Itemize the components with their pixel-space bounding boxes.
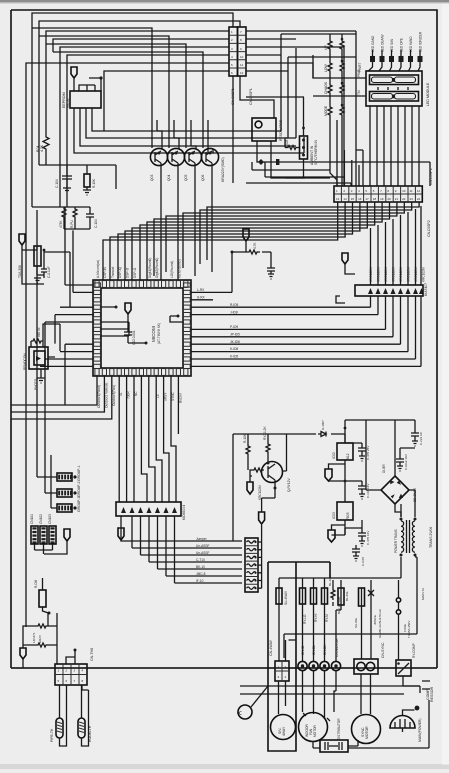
svg-text:POWER TRANS: POWER TRANS: [394, 529, 398, 553]
connector ring CN-ID: [298, 661, 307, 670]
header CN ambient 3pin: [300, 136, 319, 165]
svg-text:RY2 1.2K: RY2 1.2K: [263, 426, 267, 440]
svg-text:Q06: Q06: [201, 174, 205, 181]
svg-text:CN-TH8: CN-TH8: [90, 648, 94, 661]
svg-text:P-ID9: P-ID9: [230, 325, 238, 329]
label micom right pin names: [197, 288, 240, 359]
svg-text:BL-IDE: BL-IDE: [345, 591, 349, 601]
svg-text:LGI(Rsum4): LGI(Rsum4): [170, 261, 174, 278]
relay fuse RY-MED: [322, 588, 330, 622]
svg-text:KIA7407: KIA7407: [424, 283, 428, 296]
wire top-left nested bus: [26, 13, 240, 627]
connector CN-SYNC: [354, 642, 385, 674]
svg-text:C-0.05: C-0.05: [361, 557, 365, 566]
svg-text:T3.15A 250V: T3.15A 250V: [407, 621, 411, 638]
svg-text:C-GG2 1KV: C-GG2 1KV: [404, 454, 408, 470]
wire cn4way down: [279, 640, 297, 714]
ground xtal: [34, 266, 44, 283]
capacitor C05 option: [267, 266, 275, 274]
svg-text:13: 13: [336, 197, 340, 201]
svg-text:CN101: CN101: [30, 514, 34, 524]
diode D11: [318, 420, 326, 437]
svg-text:SY'C/THERM IN: SY'C/THERM IN: [314, 140, 318, 165]
svg-text:CN-MOTOR: CN-MOTOR: [335, 638, 339, 657]
wire left bus to lower: [32, 165, 116, 207]
svg-text:CN102: CN102: [39, 514, 43, 524]
resistor base q07: [252, 468, 264, 472]
capacitor resonator b: [276, 159, 279, 165]
wire power top rails: [232, 434, 234, 541]
relay RY-COMP: [396, 643, 416, 676]
svg-text:R-10K: R-10K: [92, 178, 96, 188]
wire xtal to micom: [37, 250, 70, 307]
transistor Q04 KTC: [201, 148, 219, 181]
wire regulators: [329, 460, 346, 535]
relay fuse RY-LO: [300, 588, 308, 624]
svg-text:IC03: IC03: [332, 512, 336, 519]
svg-text:D-4007: D-4007: [321, 420, 325, 430]
svg-text:TRANS 2W06: TRANS 2W06: [429, 527, 433, 548]
varistor MOV1: [36, 624, 48, 643]
svg-text:BL-10W: BL-10W: [328, 575, 332, 586]
capacitor resonator a: [258, 159, 264, 165]
wire transformer: [279, 490, 415, 578]
capacitor C31 + gnd: [345, 443, 370, 461]
svg-text:LED MODULE: LED MODULE: [426, 82, 430, 106]
tag 12V couplers: [259, 512, 265, 524]
svg-text:JK-ID8: JK-ID8: [230, 340, 240, 344]
transistor array U03: [355, 283, 428, 296]
svg-text:MAIN-7A: MAIN-7A: [421, 588, 425, 600]
tag 5V array: [342, 253, 348, 264]
wire driver outputs to couplers: [121, 540, 242, 583]
LED module block: [366, 71, 430, 106]
svg-text:Q-RY12V: Q-RY12V: [287, 478, 291, 492]
svg-text:GROUP-3: GROUP-3: [77, 496, 81, 512]
svg-text:18: 18: [373, 197, 377, 201]
capacitor C35 top: [411, 428, 423, 446]
svg-text:7812: 7812: [346, 453, 350, 461]
wire bottom right box: [313, 700, 429, 748]
resistor group UP: [324, 38, 344, 51]
svg-text:10: 10: [240, 55, 244, 59]
svg-text:14: 14: [343, 197, 347, 201]
tag 12V q07: [247, 482, 253, 494]
wire tag to array: [336, 264, 355, 303]
svg-text:KRC102M: KRC102M: [384, 267, 388, 282]
resistor ambient R 103: [285, 146, 299, 150]
jumper header GROUP-2: [57, 481, 81, 497]
svg-text:RY-COMP: RY-COMP: [412, 643, 416, 658]
jumper header GROUP-1: [57, 465, 81, 481]
resistor group CHAOS: [324, 81, 344, 95]
wire led module inputs left: [313, 55, 366, 96]
svg-text:KRA223Y(SMD): KRA223Y(SMD): [221, 157, 225, 182]
thermistor TH-ROOM: [78, 718, 92, 742]
svg-text:RY-M: RY-M: [325, 614, 329, 622]
label micom bottom pin names: [97, 382, 182, 408]
connector ring CN-BL: [309, 661, 318, 670]
svg-text:17: 17: [365, 197, 369, 201]
header CN-MODEL2: [39, 514, 47, 544]
capacitor block FAN CAP: [320, 740, 348, 752]
svg-text:KRC102M: KRC102M: [377, 267, 381, 282]
tag 5V micom inner: [125, 303, 131, 314]
svg-text:93C56: 93C56: [66, 98, 70, 108]
svg-text:MAIN(POWER): MAIN(POWER): [418, 718, 422, 742]
svg-text:21: 21: [395, 197, 399, 201]
svg-text:LED IONIZER: LED IONIZER: [419, 31, 423, 52]
svg-text:DI-BR: DI-BR: [382, 464, 386, 473]
svg-text:Jumper: Jumper: [196, 537, 208, 541]
resistor pullup R10: [59, 207, 66, 228]
scan edge bottom: [0, 764, 449, 769]
wire upper ac line: [284, 557, 417, 658]
regulator IC02 7812: [332, 443, 353, 461]
wire tag to xtal: [22, 245, 44, 284]
wire mov net: [23, 613, 57, 668]
svg-text:LOW: LOW: [324, 63, 328, 72]
wire led module outputs to cn-disp2: [370, 106, 419, 186]
wire pullup tops: [64, 219, 90, 229]
svg-text:10: 10: [402, 189, 406, 193]
svg-text:A: A: [238, 711, 244, 715]
wire lower runs: [240, 686, 420, 694]
resistor group LOW: [324, 60, 344, 73]
wire top right power: [400, 448, 415, 455]
tag 5V reg: [328, 530, 335, 542]
wire micom bottom to driver array: [11, 376, 178, 502]
svg-text:C-470 16V: C-470 16V: [366, 531, 370, 545]
capacitor C33 + gnd: [345, 520, 370, 546]
svg-text:UP: UP: [324, 45, 328, 50]
ground eeprom cap: [63, 188, 71, 193]
wire transistor emitters down to micom top: [161, 169, 212, 280]
compressor M03: [390, 706, 422, 742]
svg-text:RESSOR: RESSOR: [430, 686, 434, 702]
svg-text:19: 19: [380, 197, 384, 201]
driver array U04: [116, 502, 186, 520]
svg-text:KRC102M: KRC102M: [258, 485, 262, 500]
svg-text:JP-ID5: JP-ID5: [230, 332, 240, 336]
connector CN-DISP2: [334, 168, 433, 237]
svg-text:CSP-IN: CSP-IN: [103, 266, 107, 278]
svg-text:RY-HI: RY-HI: [314, 614, 318, 622]
resistor R21 10K: [243, 433, 250, 456]
svg-text:DSP-I3: DSP-I3: [126, 267, 130, 278]
svg-text:CN-BL: CN-BL: [312, 645, 316, 655]
svg-text:CN-BK: CN-BK: [323, 644, 327, 655]
wire key matrix: [281, 34, 356, 186]
svg-text:Q03: Q03: [150, 174, 154, 181]
svg-text:DSP-IQ: DSP-IQ: [118, 266, 122, 278]
wire u04 outputs down: [121, 516, 175, 581]
led D06: [418, 31, 423, 62]
wire coupler outputs right: [258, 525, 262, 588]
svg-text:11: 11: [240, 63, 243, 67]
svg-text:4.7K: 4.7K: [40, 144, 44, 152]
svg-text:(AT-TINY8 SK): (AT-TINY8 SK): [157, 323, 161, 344]
wire relay columns: [303, 578, 337, 662]
svg-text:Un-ASSF: Un-ASSF: [196, 544, 210, 548]
svg-text:MICOM: MICOM: [151, 326, 156, 342]
connector CN-DISP1 right column: [238, 27, 254, 105]
wire cn-disp1 right rows to right side: [233, 31, 356, 183]
svg-text:K-ID5: K-ID5: [230, 355, 238, 359]
svg-text:TDA-306: TDA-306: [18, 265, 22, 278]
svg-text:Transist: Transist: [111, 267, 115, 278]
resonator X01: [252, 118, 283, 141]
wire model headers: [35, 541, 68, 554]
svg-text:16: 16: [358, 197, 362, 201]
svg-text:Q04: Q04: [167, 174, 171, 181]
resistor RB1 power: [328, 575, 341, 614]
tag 5V micom left: [19, 234, 25, 245]
svg-text:LED GAND: LED GAND: [371, 35, 375, 52]
scan edge top: [0, 0, 449, 2]
fuse SU-IDE: [354, 588, 365, 628]
svg-text:IC02: IC02: [332, 452, 336, 459]
svg-text:C-223 AC: C-223 AC: [419, 431, 423, 445]
resistor R-DM: [34, 578, 51, 615]
led D04: [399, 38, 404, 62]
svg-text:CN-DISP2: CN-DISP2: [427, 220, 431, 237]
svg-text:C-T10: C-T10: [196, 558, 205, 562]
wire eeprom data lines: [74, 108, 304, 153]
wire q07: [250, 434, 287, 512]
svg-text:23: 23: [410, 197, 414, 201]
svg-text:KRC102M: KRC102M: [414, 267, 418, 282]
header CN-MODEL1: [30, 514, 38, 544]
wire bridge dc line: [345, 420, 415, 476]
svg-text:CN-ID: CN-ID: [301, 645, 305, 655]
transistor Q01 KTC: [150, 148, 168, 181]
transistor Q02 KTC: [167, 148, 185, 181]
svg-text:KEY(Rsum5): KEY(Rsum5): [177, 259, 181, 278]
ground option: [268, 274, 274, 279]
ground R05: [83, 190, 91, 195]
resistor R-pull 4.7K: [43, 131, 49, 165]
svg-text:GROUP-1: GROUP-1: [77, 465, 81, 481]
varistor MOV2: [32, 632, 48, 647]
svg-text:14D471: 14D471: [32, 632, 36, 643]
header CN-MODEL3: [48, 514, 56, 544]
svg-text:15: 15: [351, 197, 355, 201]
svg-text:Digit1(Rsum0): Digit1(Rsum0): [148, 258, 152, 278]
svg-text:Un-ASSF: Un-ASSF: [196, 551, 210, 555]
svg-text:R-ID5: R-ID5: [230, 303, 239, 307]
svg-text:JIPENu: JIPENu: [373, 614, 377, 625]
svg-text:Q05: Q05: [184, 174, 188, 181]
tag 12V reg: [325, 469, 332, 481]
wire option divider: [232, 241, 271, 292]
wire micom internal left: [101, 307, 129, 336]
wire cap to sync: [348, 740, 358, 746]
wire cn-disp2 bottom fan to micom: [103, 202, 419, 280]
svg-text:12: 12: [240, 71, 244, 75]
wire eeprom vcc: [74, 78, 101, 91]
svg-text:R-PU: R-PU: [70, 220, 74, 228]
svg-text:Digit2(Rsum0): Digit2(Rsum0): [155, 258, 159, 278]
svg-text:MODE: MODE: [324, 105, 328, 116]
svg-text:SU-4WAY: SU-4WAY: [284, 590, 288, 605]
svg-text:K-ID8: K-ID8: [230, 347, 238, 351]
tag 12V model: [64, 529, 70, 541]
wire micom internal right: [170, 316, 183, 322]
wire rings down: [303, 671, 337, 718]
fuse SU-4WAY: [276, 588, 288, 605]
wire resonator pins: [257, 141, 430, 186]
svg-text:SH380-3A BH370-HA: SH380-3A BH370-HA: [378, 609, 382, 638]
seven segment display row 1: [370, 75, 419, 85]
wire array outputs to micom right ports: [371, 296, 422, 366]
resistor pullup R11: [70, 207, 77, 228]
wire sync motor: [361, 580, 371, 714]
svg-text:CN-4WAY: CN-4WAY: [269, 639, 273, 656]
svg-text:7805: 7805: [346, 512, 350, 520]
wire remocon: [31, 324, 60, 378]
diode X D21: [368, 588, 382, 638]
svg-text:KRC102M: KRC102M: [369, 267, 373, 282]
svg-text:ERZV: ERZV: [38, 635, 42, 643]
wire disp2 left feeds: [246, 31, 363, 186]
svg-text:4.7K: 4.7K: [253, 242, 257, 249]
wire ry-comp: [399, 580, 421, 693]
led D05: [408, 36, 413, 62]
wire su-4way: [278, 578, 280, 661]
section box 4way: [268, 562, 330, 751]
photocoupler column PC01: [245, 538, 258, 592]
connector ring CN-BK: [320, 661, 329, 670]
diode rect D-BUZ: [338, 588, 349, 605]
capacitor C32 + gnd: [345, 481, 370, 499]
svg-text:CN-SYNC: CN-SYNC: [381, 642, 385, 658]
sync motor M02: [352, 715, 381, 744]
power transformer T01: [394, 518, 433, 557]
svg-text:11: 11: [410, 189, 413, 193]
jumper header GROUP-3: [57, 496, 81, 512]
wire groups to left bus: [37, 210, 57, 508]
wire r21 r22 top: [233, 434, 345, 470]
crystal X02 TCXO: [18, 246, 45, 278]
tag 12V array u04: [118, 528, 124, 540]
wire motor taps: [303, 691, 336, 748]
capacitor C36: [396, 454, 408, 471]
svg-text:C-104: C-104: [94, 219, 98, 228]
svg-text:PIPE-TH: PIPE-TH: [50, 728, 54, 742]
svg-text:473K: 473K: [59, 220, 63, 228]
capacitor C37 xcap: [352, 545, 365, 566]
svg-text:DISTRIBUTOR: DISTRIBUTOR: [337, 718, 341, 740]
svg-text:CN-DISP2: CN-DISP2: [429, 168, 433, 185]
svg-text:MOTOR: MOTOR: [313, 724, 317, 737]
svg-text:24: 24: [417, 197, 421, 201]
ground remocon: [37, 378, 45, 383]
svg-text:GROUP-2: GROUP-2: [77, 481, 81, 497]
seven segment display row 2: [370, 87, 419, 101]
svg-text:R04: R04: [36, 146, 40, 152]
wire main ac bus: [11, 667, 437, 669]
tag 5V option divider: [243, 229, 249, 241]
resistor group MODE: [324, 104, 344, 117]
svg-text:20: 20: [387, 197, 391, 201]
resistor R03 4.7K option: [246, 250, 260, 254]
fan motor M01: [299, 713, 328, 742]
svg-text:R-DM: R-DM: [34, 579, 38, 588]
svg-text:LED S/W: LED S/W: [390, 39, 394, 52]
svg-text:LED WIND: LED WIND: [409, 36, 413, 52]
svg-text:C02 0.001: C02 0.001: [132, 330, 136, 345]
svg-text:A-Micom(un): A-Micom(un): [96, 260, 100, 278]
capacitor C04: [41, 266, 51, 278]
tag 5V supply eeprom: [71, 67, 77, 78]
svg-text:MOTOR: MOTOR: [365, 726, 369, 739]
led D01: [370, 35, 375, 62]
svg-text:KRC102M: KRC102M: [422, 267, 426, 282]
svg-text:4WAY: 4WAY: [282, 726, 286, 736]
connector CN-TH8: [55, 648, 94, 685]
svg-text:S-RX: S-RX: [197, 295, 205, 299]
svg-text:KRC102M: KRC102M: [407, 267, 411, 282]
connector CN-DISP1 left column: [229, 27, 238, 105]
bridge rectifier BD01: [381, 464, 417, 504]
svg-text:KID65004: KID65004: [182, 505, 186, 520]
capacitor C-RF: [86, 207, 98, 228]
eeprom U02: [70, 91, 101, 108]
svg-text:C-104: C-104: [55, 179, 59, 188]
svg-text:KRC102M: KRC102M: [399, 267, 403, 282]
capacitor C02 micom: [124, 314, 148, 345]
svg-text:LED DEA/W: LED DEA/W: [381, 34, 385, 52]
svg-text:C-0.1uF: C-0.1uF: [47, 266, 51, 278]
connector CN-4WAY: [269, 639, 289, 681]
wire d-buz: [336, 580, 341, 634]
svg-text:12: 12: [417, 189, 421, 193]
regulator IC03 7805: [332, 502, 353, 520]
svg-text:KRC102M: KRC102M: [392, 267, 396, 282]
balloon A: [238, 686, 269, 719]
svg-text:PWR: PWR: [357, 69, 361, 77]
relay fuse RY-HI: [311, 588, 319, 622]
wire ambient: [281, 34, 305, 178]
remocon receiver RX01: [23, 347, 48, 390]
svg-text:RY-LO: RY-LO: [303, 614, 307, 624]
led D03: [389, 39, 394, 62]
svg-text:L-RX: L-RX: [197, 288, 205, 292]
valve coil S/V-4WAY: [271, 715, 296, 740]
wire feeds to transistor bases: [32, 28, 203, 148]
transistor Q07 relay driver: [258, 462, 291, 501]
wire led cathodes into module: [369, 62, 421, 71]
svg-text:22: 22: [402, 197, 406, 201]
svg-text:CN103: CN103: [48, 514, 52, 524]
tag AC: [20, 648, 26, 659]
svg-text:IF-10: IF-10: [196, 579, 204, 583]
svg-text:LED OPE: LED OPE: [400, 38, 404, 52]
wire micom left pins out: [40, 285, 93, 366]
resistor array R KRC-102M x8: [369, 206, 426, 285]
svg-text:DSP-I2: DSP-I2: [133, 267, 137, 278]
resistor remocon R865: [31, 327, 43, 343]
svg-text:BK-10: BK-10: [196, 565, 205, 569]
wire pwrt line: [288, 56, 356, 58]
svg-text:CHAOS: CHAOS: [324, 81, 328, 94]
svg-text:JMC-8: JMC-8: [196, 572, 206, 576]
svg-text:TM: TM: [357, 90, 361, 95]
transistor Q03 KTC: [184, 148, 202, 181]
label micom top pin names: [96, 258, 181, 278]
svg-text:REMOCON: REMOCON: [23, 353, 27, 370]
